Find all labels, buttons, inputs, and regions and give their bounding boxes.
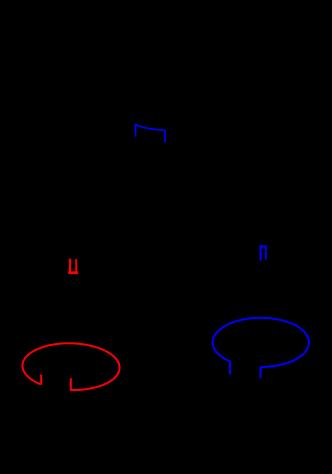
wire: left lead of L1	[135, 123, 137, 136]
label u (red, left)	[68, 259, 78, 274]
tail tick of L2	[70, 378, 72, 390]
arrowhead barb of L2	[40, 374, 42, 385]
wire: top arc of L1	[136, 124, 165, 130]
loop L3 (blue ellipse arrow, bottom right)	[213, 318, 309, 378]
wire: elliptical arc of L3 (gap at bottom-left)	[213, 318, 309, 367]
label n (blue, right)	[260, 245, 267, 260]
wire: right lead of L3	[259, 367, 261, 378]
wire: right lead of L1	[164, 130, 166, 142]
loop L1 (blue edge-on loop, top center)	[136, 123, 166, 142]
loop L2 (red ellipse arrow, bottom left)	[22, 342, 120, 391]
wire: left lead of L3	[229, 361, 231, 374]
wire: elliptical arc of L2 (gap at bottom-left)	[22, 342, 120, 391]
